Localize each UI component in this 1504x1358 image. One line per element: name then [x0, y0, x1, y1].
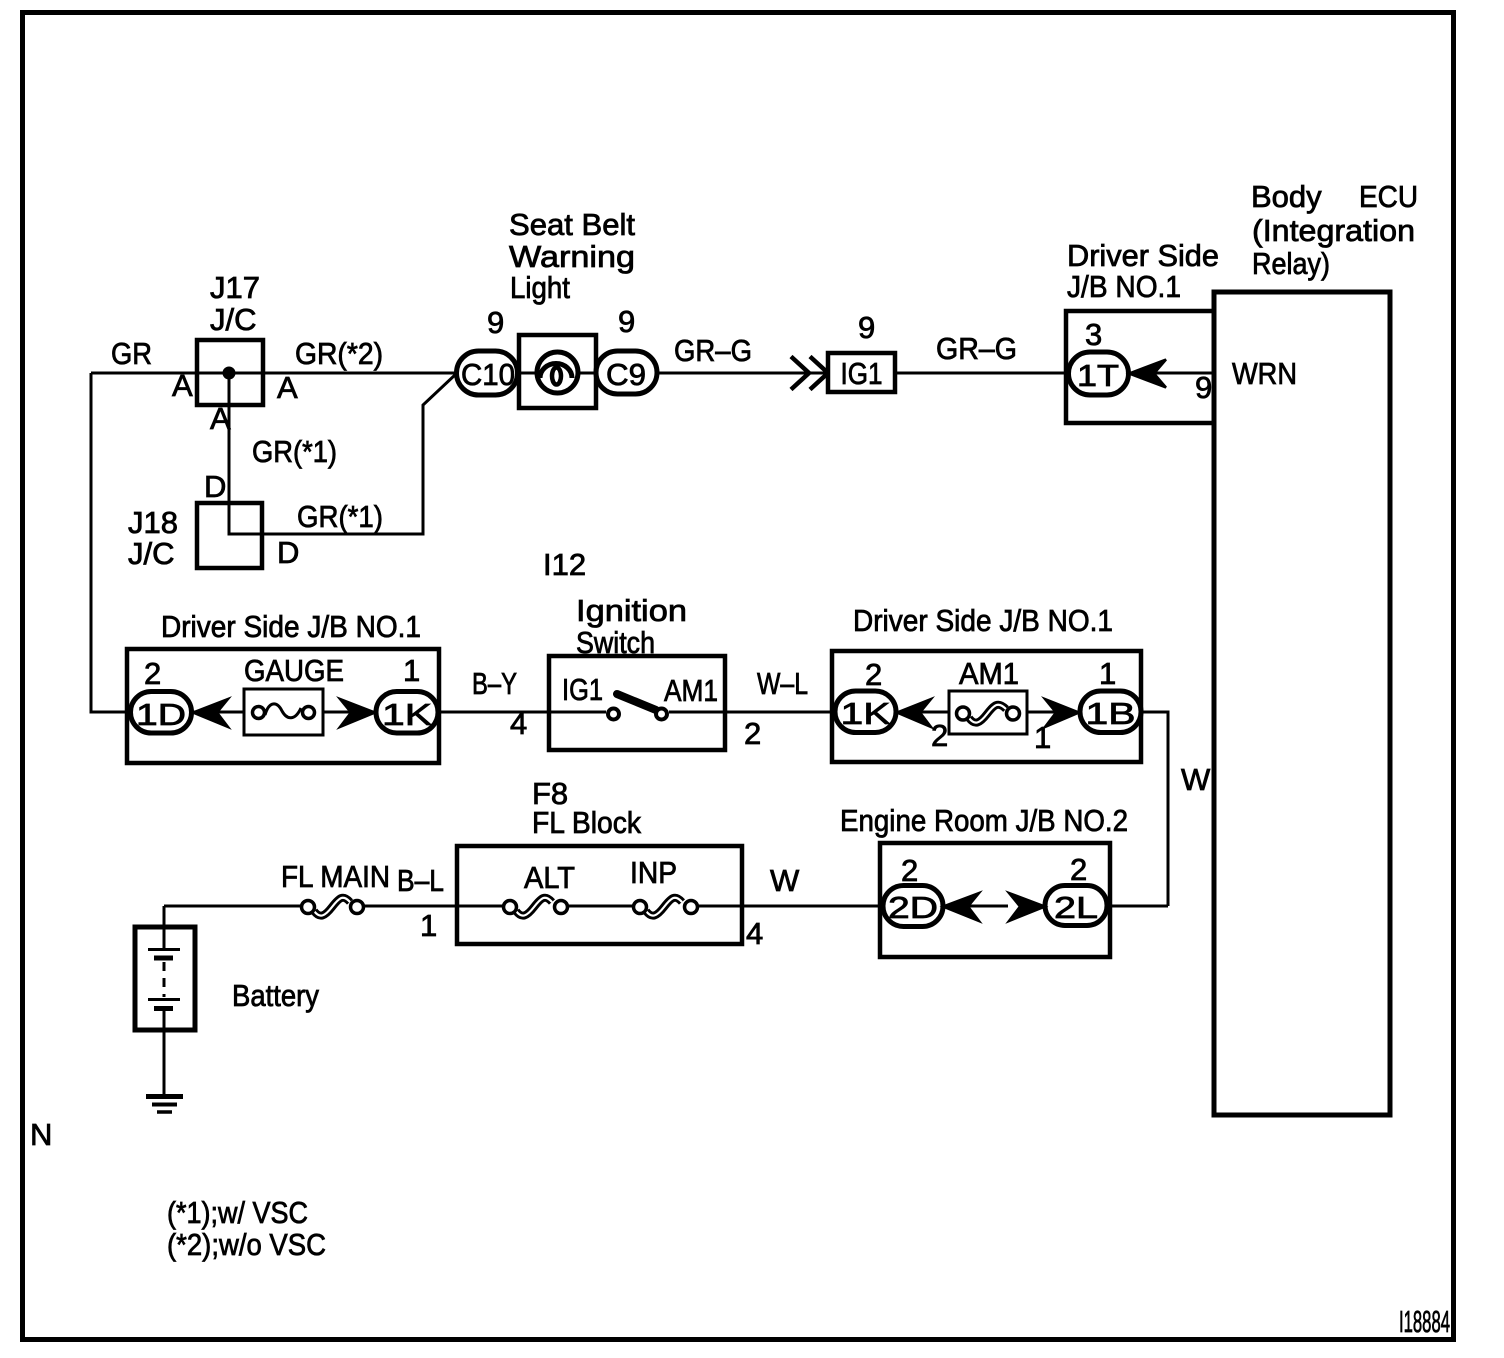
- svg-text:B–Y: B–Y: [472, 666, 517, 701]
- svg-text:D: D: [204, 469, 226, 504]
- svg-text:9: 9: [487, 305, 504, 340]
- svg-text:2: 2: [931, 718, 948, 753]
- svg-text:WRN: WRN: [1232, 356, 1297, 391]
- svg-text:AM1: AM1: [664, 673, 718, 708]
- svg-text:Relay): Relay): [1252, 246, 1330, 281]
- svg-text:1: 1: [403, 653, 420, 688]
- svg-text:9: 9: [618, 304, 635, 339]
- svg-text:A: A: [172, 368, 193, 403]
- svg-text:1: 1: [1034, 720, 1051, 755]
- svg-text:GR(*1): GR(*1): [297, 499, 383, 534]
- svg-text:C10: C10: [461, 357, 515, 392]
- svg-text:GR: GR: [111, 336, 152, 371]
- svg-text:IG1: IG1: [841, 356, 883, 391]
- svg-text:GR(*2): GR(*2): [295, 336, 383, 371]
- svg-text:AM1: AM1: [959, 656, 1019, 691]
- svg-text:D: D: [277, 535, 299, 570]
- svg-text:Driver Side: Driver Side: [1067, 238, 1219, 273]
- svg-text:GR–G: GR–G: [674, 333, 752, 368]
- svg-text:1B: 1B: [1086, 696, 1136, 731]
- svg-text:I18884: I18884: [1399, 1304, 1450, 1339]
- svg-text:J17: J17: [210, 270, 260, 305]
- svg-text:FL Block: FL Block: [532, 805, 641, 840]
- svg-text:3: 3: [1085, 317, 1102, 352]
- svg-text:1: 1: [420, 908, 437, 943]
- svg-text:9: 9: [858, 310, 875, 345]
- svg-text:2L: 2L: [1054, 890, 1098, 925]
- svg-text:2: 2: [901, 853, 918, 888]
- svg-text:GR(*1): GR(*1): [252, 434, 337, 469]
- svg-text:Light: Light: [510, 270, 570, 305]
- svg-text:I12: I12: [543, 547, 586, 582]
- svg-text:(Integration: (Integration: [1252, 213, 1415, 248]
- svg-text:FL MAIN: FL MAIN: [281, 859, 390, 894]
- svg-text:A: A: [210, 401, 231, 436]
- svg-text:Driver Side J/B NO.1: Driver Side J/B NO.1: [161, 609, 421, 644]
- svg-text:B–L: B–L: [397, 863, 444, 898]
- svg-text:IG1: IG1: [562, 672, 603, 707]
- svg-text:W: W: [1181, 762, 1211, 797]
- svg-text:1K: 1K: [382, 697, 432, 732]
- svg-text:1K: 1K: [841, 696, 891, 731]
- svg-text:2: 2: [1070, 852, 1087, 887]
- svg-text:C9: C9: [606, 357, 646, 392]
- svg-text:4: 4: [746, 916, 763, 951]
- svg-text:J/C: J/C: [128, 536, 175, 571]
- svg-text:1D: 1D: [136, 697, 186, 732]
- svg-text:2: 2: [865, 657, 882, 692]
- svg-text:J/C: J/C: [210, 302, 257, 337]
- svg-text:2: 2: [144, 656, 161, 691]
- svg-text:Body: Body: [1251, 179, 1322, 214]
- svg-text:Warning: Warning: [509, 239, 635, 274]
- svg-text:Switch: Switch: [576, 625, 655, 660]
- svg-text:J18: J18: [128, 505, 178, 540]
- svg-text:(*1);w/ VSC: (*1);w/ VSC: [167, 1195, 308, 1230]
- svg-text:N: N: [30, 1117, 52, 1152]
- svg-text:Seat Belt: Seat Belt: [509, 207, 635, 242]
- svg-text:Driver Side J/B NO.1: Driver Side J/B NO.1: [853, 603, 1113, 638]
- svg-text:1: 1: [1099, 656, 1116, 691]
- svg-text:ALT: ALT: [524, 860, 575, 895]
- svg-text:2D: 2D: [888, 890, 938, 925]
- svg-text:Engine Room J/B NO.2: Engine Room J/B NO.2: [840, 803, 1128, 838]
- svg-text:(*2);w/o VSC: (*2);w/o VSC: [167, 1227, 326, 1262]
- svg-text:2: 2: [744, 716, 761, 751]
- svg-text:Battery: Battery: [232, 978, 319, 1013]
- svg-text:GR–G: GR–G: [936, 331, 1017, 366]
- svg-text:9: 9: [1195, 370, 1212, 405]
- svg-text:ECU: ECU: [1359, 179, 1418, 214]
- svg-text:A: A: [277, 370, 298, 405]
- svg-text:J/B NO.1: J/B NO.1: [1067, 269, 1181, 304]
- svg-text:INP: INP: [630, 855, 677, 890]
- svg-text:Ignition: Ignition: [576, 593, 687, 628]
- svg-text:GAUGE: GAUGE: [244, 653, 344, 688]
- svg-text:1T: 1T: [1077, 358, 1119, 393]
- svg-text:W: W: [770, 863, 800, 898]
- svg-text:W–L: W–L: [757, 666, 808, 701]
- svg-text:4: 4: [510, 706, 527, 741]
